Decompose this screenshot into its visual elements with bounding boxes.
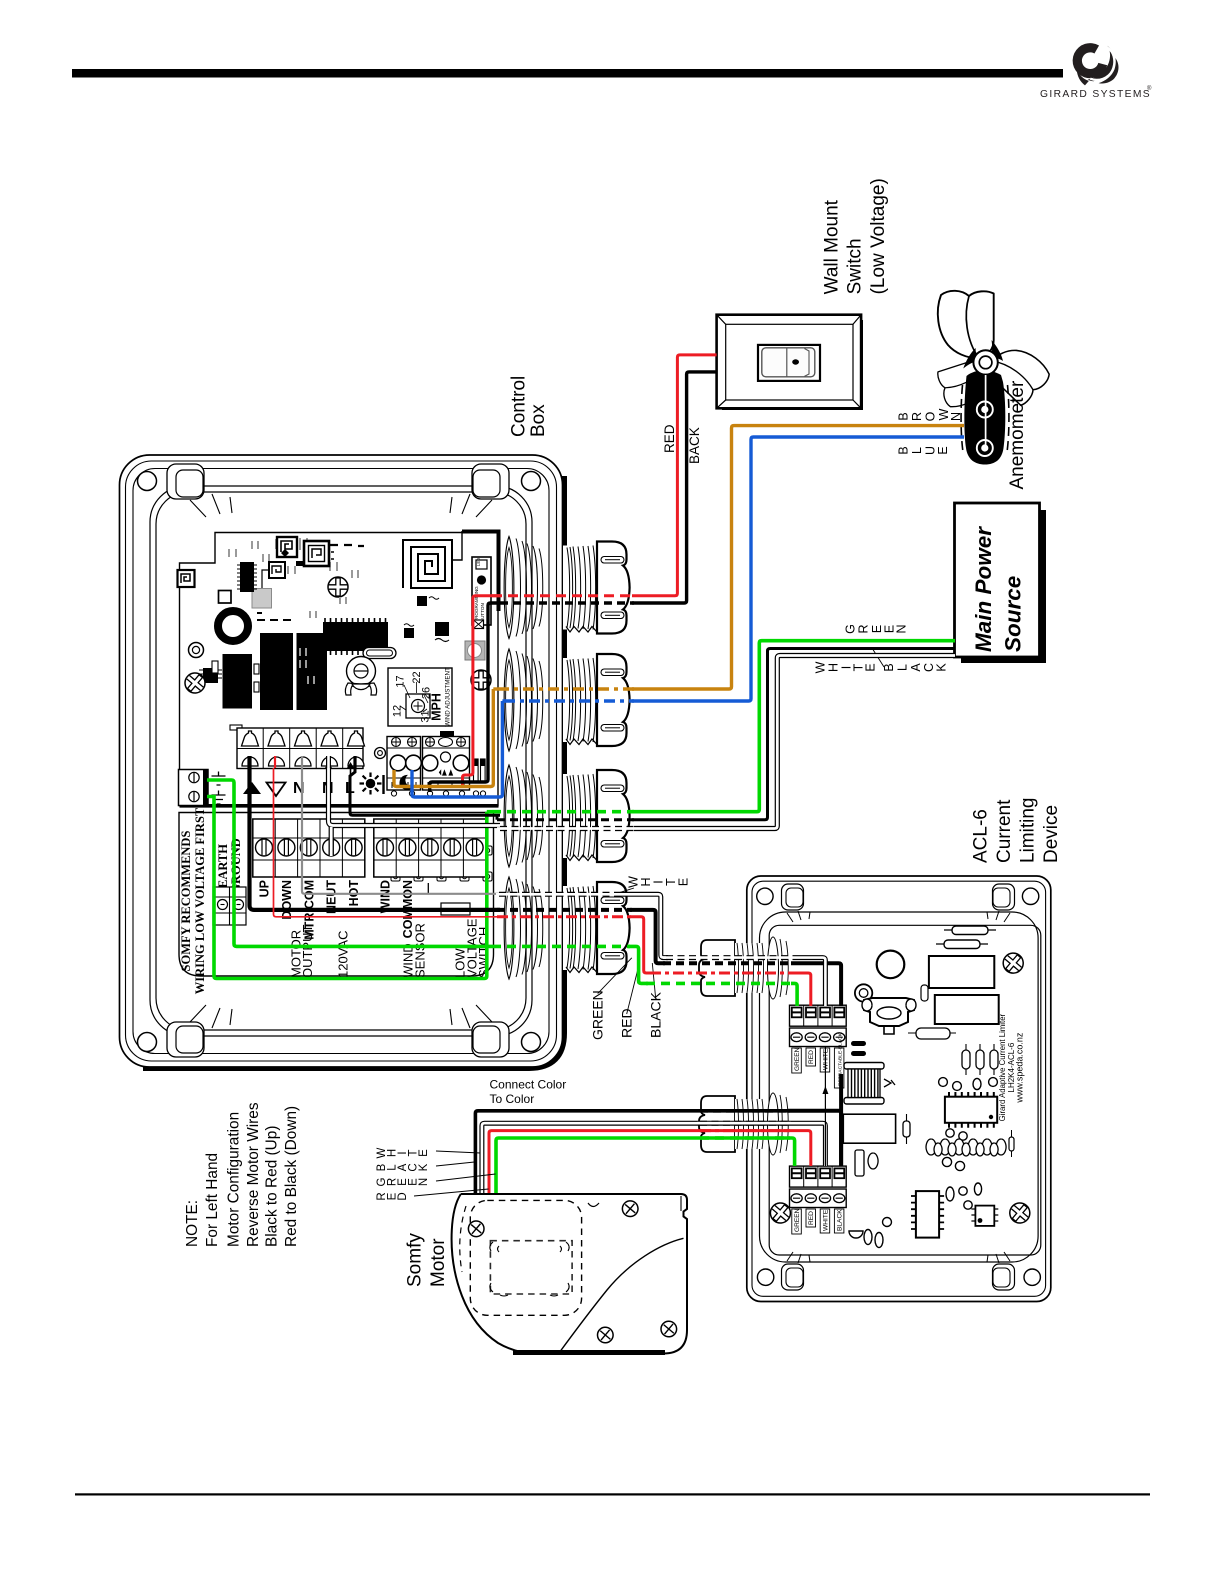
svg-text:BUTTON: BUTTON [480,603,485,622]
trimmer with cross below programming [474,620,484,629]
anemometer body [964,370,1005,464]
anemometer hub [973,350,997,374]
anemometer screw 1 [977,402,993,418]
wall switch bevel lines [717,315,862,409]
anemometer blade right [983,337,1053,407]
motor wire letters RED [376,1192,409,1200]
lid crease marks bottom-right [450,1005,492,1028]
motor bottom thick edge [513,1350,665,1355]
svg-text:Wall Mount: Wall Mount [822,199,843,294]
ACL pcb screw bottom left [766,1199,794,1227]
svg-text:GREEN: GREEN [794,1208,801,1232]
svg-text:ACL-6: ACL-6 [971,809,992,863]
black pad right of wind box [440,731,454,740]
spiral component S3 [304,541,334,566]
corner screw bottom-left [138,1033,157,1052]
aux cell dash [427,883,429,894]
passive marks near relays [257,613,291,620]
latch bottom-right [472,1022,509,1057]
pin symbol L line with arrow [345,762,355,797]
latch bottom-left [167,1022,204,1057]
wire white dashed to ACL TB1 [663,955,796,960]
wire white MTR COM dashed through gland 4 [496,892,620,897]
svg-text:RED: RED [662,424,677,453]
ACL pills right [1009,1130,1014,1157]
svg-text:SWITCH: SWITCH [476,927,491,978]
svg-text:Motor Configuration: Motor Configuration [226,1112,243,1247]
motor cable black [475,1111,790,1196]
svg-text:RED: RED [619,1008,635,1038]
svg-text:L: L [910,447,924,454]
svg-text:E: E [418,1149,430,1157]
tiny pin circles row [391,791,485,796]
motor dashed left arc [460,1206,466,1272]
strip screw aux3 [466,839,483,856]
callout black acl [652,963,655,999]
pin symbol N neutral with arrow [322,762,334,797]
anemometer blade lower-left [936,358,993,410]
ring component [189,643,204,658]
svg-text:GREEN: GREEN [590,990,606,1040]
ACL crease marks TL [787,911,810,922]
label BLUE stacked [897,446,951,455]
svg-text:O: O [924,411,938,421]
ACL big hole [877,951,905,979]
ACL vertical DIP bottom [911,1191,944,1238]
relay block mid [260,633,293,710]
ACL pcb screw top right [999,949,1027,977]
svg-text:EARTH: EARTH [216,844,230,888]
control box shadow right+bottom [143,476,563,1067]
wire blue inside box [412,701,502,797]
lid crease marks top-left [190,494,232,517]
motor screw 1 [465,1218,487,1240]
ACL D shape + pills bottom left [849,1218,892,1248]
callout white gland4 [613,888,634,895]
ACL resistor trio [962,1044,998,1075]
strip screw aux1 [421,839,438,856]
wire orange to anemometer [632,426,964,689]
corner screw bottom-right [522,1033,541,1052]
ACL jumper pads left [851,1041,866,1056]
svg-text:E: E [936,446,950,454]
small ic square left [199,668,222,683]
ACL big rect 1 [929,956,994,988]
svg-text:Somfy: Somfy [405,1233,426,1287]
ACL small post [921,985,928,1001]
small black square right A [435,622,449,642]
IC-A with pins [237,562,257,592]
wire black dashed through gland 1 [500,601,634,604]
corner screw top-right [522,472,541,491]
relay terminal block A [387,737,421,791]
svg-text:GROUND: GROUND [229,838,243,894]
label WHITE stacked gland4 [627,876,691,888]
ACL crease marks BR [987,1252,1010,1263]
label BROWN stacked [897,408,964,421]
anemometer screw 2 [977,440,993,456]
svg-text:BLACK: BLACK [837,1209,844,1231]
toroid ring [218,611,248,641]
svg-text:G: G [843,624,857,634]
svg-text:B: B [897,446,911,454]
ACL resistor h2 [944,926,996,935]
ACL small parts left column [855,1150,878,1176]
header rule bar [72,69,1063,78]
callout red acl [627,966,639,1014]
ground terminal block 2x2 [213,887,246,925]
svg-text:B: B [882,663,896,671]
ACL circles under DIP [946,1129,967,1140]
PCB outline [180,533,499,806]
terminal stub black HOT [353,756,356,768]
latch top-right [472,464,509,499]
cable gland 3 [504,765,629,867]
wire red DOWN to ACL [630,917,652,973]
svg-text:Current: Current [994,799,1015,863]
ACL corner screw TL [757,888,773,904]
svg-text:Control: Control [509,376,530,437]
cable gland 4 [504,877,629,979]
label GREEN stacked [843,624,908,634]
anemometer dark wedge C [958,348,982,369]
corner screw top-left [138,472,157,491]
ground symbol upper [212,772,226,786]
motor screw 3 [594,1324,616,1346]
motor wire letters BLACK [376,1163,430,1171]
ACL box shell line2 [752,881,1046,1296]
wire white neutral dashed through gland 3 [497,826,637,831]
label BLACK stacked [882,663,948,672]
NOTE block [184,1102,300,1247]
spiral component S2 [277,537,297,557]
earth terminal block [179,770,209,806]
wire white neutral from N terminal [329,767,501,826]
svg-text:R: R [857,624,871,633]
svg-text:SENSOR: SENSOR [412,923,427,978]
ACL lid seam [760,912,1039,1262]
pad row below pcb right [391,846,492,881]
terminal stub white NEUT [326,756,331,768]
svg-text:RED: RED [808,1050,815,1064]
wire orange inside box [394,689,493,787]
wire white neutral to main power box [634,656,955,829]
wall switch shadow [722,320,863,410]
ACL fuse holder [862,998,916,1034]
svg-text:N: N [418,1178,430,1186]
svg-text:GREEN: GREEN [794,1047,801,1071]
strip screw HOT [345,839,362,856]
svg-text:WHITE: WHITE [822,1209,829,1231]
double circle pad left of block A [375,748,386,759]
small black square right B [404,624,414,638]
svg-text:L: L [896,664,910,671]
ACL crease marks BL [787,1252,810,1263]
wire red dashed to ACL TB1 [650,972,793,975]
latch top-left [167,464,204,499]
svg-text:www.speda.co.nz: www.speda.co.nz [1015,1032,1025,1104]
svg-text:GIRARD SYSTEMS: GIRARD SYSTEMS [1040,89,1151,100]
svg-text:E: E [863,663,877,671]
wire green B earth to ACL [207,780,492,946]
motor spring clip marks [490,1242,569,1296]
svg-text:Reverse Motor Wires: Reverse Motor Wires [245,1102,262,1247]
ACL terminal block TB1 [790,1005,847,1046]
svg-text:N: N [949,412,963,421]
cable gland 1 [504,537,629,639]
smd dark bits [296,561,305,566]
wall switch rocker [762,348,815,377]
motor wire letters WHITE [376,1147,430,1158]
terminal stub red DOWN [274,756,276,768]
ACL latch TR [993,884,1015,910]
terminal strip right block [374,819,486,877]
wire red dashed through gland 1 [492,594,634,597]
cable gland 2 [504,649,629,751]
wire green A dashed through gland 3 [492,810,634,814]
svg-text:WIND ADJUSTMENT: WIND ADJUSTMENT [445,667,452,727]
ACL diode comb row [926,1139,1006,1156]
ACL terminal block TB2 [790,1166,847,1207]
ground symbol lower [212,791,226,805]
relay block left [223,654,253,709]
strip screw aux2 [444,839,461,856]
ACL corner screw TR [1022,888,1038,904]
callout white black [872,648,884,667]
smd pad cluster top-left [229,538,358,578]
screw left-middle [181,669,209,697]
aux fuse box on black wire [441,903,470,915]
anemometer body dashed sides [961,385,1009,452]
svg-text:LED: LED [476,558,481,566]
motor cable white [482,1123,788,1196]
wire blue dashed through gland 2 [504,699,634,702]
wire black UP to ACL [630,910,665,963]
wire green B to ACL [628,946,648,983]
ACL latch BL [782,1264,804,1290]
ACL circle pair lower [942,1157,964,1170]
programming button module [472,557,491,625]
pin symbol warning triangle [243,782,261,794]
control box lid seam inner [156,492,526,1030]
TB2 labels [792,1208,844,1234]
svg-text:RED: RED [808,1211,815,1225]
svg-text:R: R [910,412,924,421]
wire red programming to gland1 [463,596,501,788]
terminal stub black UP [247,756,251,768]
main power source shadow [961,510,1046,663]
strip cell dividers [275,819,463,877]
ACL white rect center [843,1114,895,1143]
svg-text:Main Power: Main Power [971,526,996,652]
motor cable black dashed in gland [700,1109,790,1113]
wire black UP motor [250,768,501,910]
wire green A earth to main power [207,797,487,979]
logo Girard Systems mark [1040,43,1152,100]
svg-text:Red to Black (Down): Red to Black (Down) [283,1106,300,1247]
control box outer shell [120,455,563,1067]
svg-text:Girard Adaptive Current Limite: Girard Adaptive Current Limiter [998,1013,1007,1121]
svg-text:D: D [397,1192,409,1200]
wall switch rocker frame [758,345,820,381]
wire black UP dashed to ACL TB1 [663,961,793,965]
ACL gland upper [699,937,788,999]
motor cable green [496,1138,790,1196]
lower compartment frame [179,813,494,977]
svg-text:Source: Source [1001,576,1026,652]
ACL small IC with dot [971,1206,998,1226]
terminal entries [242,757,364,766]
ACL pcb outline [769,925,1041,1255]
motor cable green bend into TB2 [788,1138,795,1166]
pin symbol down triangle [267,783,286,797]
wire blue to anemometer [632,437,964,701]
wind adjustment box [388,667,452,727]
svg-text:To Color: To Color [490,1092,535,1106]
svg-text:MPH: MPH [430,693,444,721]
wire orange dashed through gland 2 [498,687,634,690]
motor dashed head square [490,1241,572,1294]
ACL pcb screw bottom right [1006,1199,1034,1227]
svg-text:B: B [897,412,911,420]
wire black gland1 vertical inside [430,603,500,792]
wire white MTR COM to ACL [617,894,668,957]
relay terminal block B [422,737,469,791]
strip screw WIND [377,839,394,856]
svg-text:H: H [826,663,840,672]
TB1 labels [792,1032,844,1088]
svg-text:(Low Voltage): (Low Voltage) [868,178,889,294]
gray square with circle [465,641,485,660]
svg-text:UP: UP [258,880,272,897]
ACL crystal + circles bottom [946,1183,982,1209]
gray gradient square [252,589,272,609]
motor screw 4 [658,1318,680,1340]
screw right-side [471,670,491,690]
wall switch outer plate [717,315,862,409]
svg-text:22: 22 [411,671,423,683]
spiral component S4 [269,562,285,578]
smd right small [417,596,439,606]
wire black UP dashed through gland 4 [497,908,632,912]
oval fuse component [363,648,396,659]
svg-text:SOMFY RECOMMENDS: SOMFY RECOMMENDS [179,831,193,972]
anemometer stem line [985,375,987,445]
moon symbol [397,773,416,792]
motor cable white bend into TB2 [788,1123,825,1166]
motor wire letters GREEN [376,1177,430,1186]
ACL resistor h1 [936,940,988,949]
PCB thick top-right corner [462,532,499,612]
strip horizontal rails [253,838,486,860]
ACL box outer shell [747,876,1051,1302]
wire gray MTR COM [302,768,499,894]
svg-text:PROGRAMMING: PROGRAMMING [474,586,479,622]
fuse posts right of block B [474,759,486,781]
ACL crease marks TR [987,911,1010,922]
lid crease marks top-right [450,494,492,517]
svg-text:Black to Red (Up): Black to Red (Up) [264,1126,281,1247]
svg-text:DOWN: DOWN [280,880,294,920]
anemometer dark wedge A [991,340,1004,361]
anemometer dark wedge B [978,367,1002,388]
svg-text:WIRING LOW VOLTAGE FIRST: WIRING LOW VOLTAGE FIRST [193,807,207,994]
svg-text:Connect Color: Connect Color [490,1078,567,1092]
ACL gland lower [699,1093,788,1155]
svg-text:OUTPUT: OUTPUT [300,925,315,979]
svg-text:Anemometer: Anemometer [1007,380,1028,489]
screw top-center [328,577,348,597]
white square outline [219,591,232,604]
footer rule [75,1493,1150,1495]
motor cable red [489,1131,790,1196]
ACL DIP16 IC [945,1092,997,1128]
motor cable red bend into TB2 [788,1131,811,1166]
wire black hot dashed through gland 3 [497,818,634,821]
ACL big rect 2 [935,995,999,1024]
svg-text:K: K [418,1163,430,1171]
motor cable red dashed in gland [700,1129,790,1132]
lid crease marks bottom-left [190,1005,232,1028]
wire red DOWN dashed through gland 4 [497,915,632,918]
svg-text:®: ® [1147,85,1152,92]
strip screw MTR COM [300,839,317,856]
callout green acl [598,958,632,994]
svg-text:BACK: BACK [687,427,702,464]
link line S4 to gray square [262,570,269,588]
motor right edge inner line [680,1196,682,1211]
5-pin terminal block [237,728,363,769]
gray smd pads center [300,597,346,684]
svg-text:120VAC: 120VAC [335,931,350,978]
svg-text:E: E [677,878,691,886]
anemometer blade up [938,291,994,359]
motor screw 2 [619,1198,641,1220]
motor seam curve [559,1238,684,1353]
sun symbol [360,773,384,795]
svg-text:N: N [895,624,909,633]
wire red DOWN motor [274,768,501,917]
motor cable white dashed in gland [697,1121,791,1126]
wire black hot to main power box [632,649,955,820]
potentiometer [345,657,376,696]
control box shell line 2 [126,461,557,1061]
wire green A to main power box [632,641,955,812]
motor dashed mount plate [470,1200,581,1315]
spiral antenna [403,531,462,588]
terminal stub gray MTR COM [301,756,303,768]
diamond pad [281,549,289,557]
relay block right [297,633,328,710]
PCB thick bottom edge [180,804,499,808]
ACL latch BR [993,1264,1015,1290]
control box shell line 3 [133,469,549,1054]
spiral component S1 [178,570,195,587]
ACL cap small [908,1028,956,1039]
wire green B dashed through gland 4 [492,945,630,949]
svg-text:W: W [813,661,827,673]
clamp arches [242,731,365,746]
wire white neutral stub into NEUT cell [329,827,334,856]
svg-text:K: K [934,663,948,672]
svg-text:Device: Device [1041,805,1062,863]
svg-text:NOTE:: NOTE: [184,1200,201,1247]
motor small u mark [588,1203,599,1207]
svg-text:Motor: Motor [428,1238,449,1287]
ACL corner screw BR [1024,1269,1040,1285]
svg-text:A: A [909,663,923,672]
ACL circles row mid [939,1078,998,1091]
